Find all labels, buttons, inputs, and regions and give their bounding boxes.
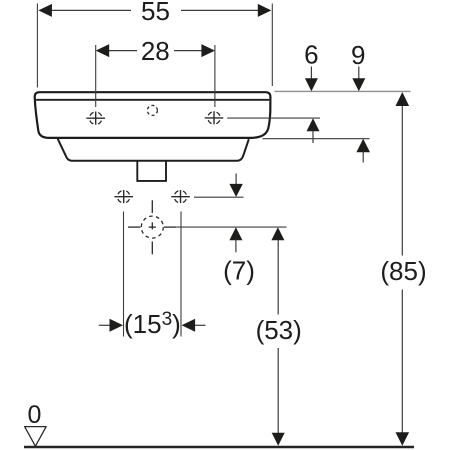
right fixing hole crosshair	[171, 190, 190, 203]
dim 6: upper arrow (down)	[310, 67, 312, 81]
svg-text:6: 6	[304, 39, 318, 69]
basin outer rim outline	[35, 92, 271, 138]
drain pipe centerline vertical	[151, 200, 153, 213]
left tap hole crosshair	[86, 112, 105, 125]
drain pipe dashed circle	[141, 216, 163, 238]
svg-text:(85): (85)	[380, 256, 426, 286]
dim (7): lower arrow (up)	[229, 227, 242, 240]
dim 55: left arrowhead	[38, 4, 52, 17]
dim (53): top arrow (up)	[271, 227, 284, 240]
svg-text:0: 0	[27, 401, 41, 429]
svg-text:(153): (153)	[124, 309, 181, 339]
dim 55: right arrowhead	[258, 4, 272, 17]
dim 9: upper arrow (down)	[358, 67, 360, 81]
dim (85): bottom arrow (down)	[396, 432, 410, 446]
dim (85): top arrow (up)	[396, 92, 410, 106]
drain outlet rectangle	[137, 161, 166, 181]
dim 28: right arrowhead	[201, 44, 215, 57]
dim 55: dimension line	[52, 9, 132, 11]
dim 28: dimension line	[109, 50, 137, 52]
floor line	[24, 446, 414, 448]
dim 28: left extension line	[95, 45, 97, 107]
basin lower body (trapezoid)	[58, 139, 249, 161]
dim 6: lower arrow (up)	[307, 118, 320, 131]
dim (53): bottom arrow (down)	[272, 433, 285, 446]
drain level line	[177, 226, 287, 228]
dim (15^3): right extension line	[180, 212, 182, 337]
fixing hole level line	[194, 196, 244, 198]
basin inner rim line	[36, 99, 269, 101]
dim (15^3): left extension line	[123, 212, 125, 337]
svg-text:28: 28	[141, 36, 170, 66]
left fixing hole crosshair	[114, 190, 133, 203]
dim (15^3): left arrow	[99, 324, 110, 326]
dim 28: left arrowhead	[96, 44, 110, 57]
dim 55: right extension line	[271, 4, 273, 87]
right tap hole crosshair	[205, 111, 224, 124]
svg-text:(53): (53)	[256, 315, 302, 345]
dim 55: left extension line	[36, 4, 38, 88]
datum 0: hollow triangle	[25, 427, 47, 447]
tap hole level reference line	[227, 117, 320, 119]
dim 9: lower arrow (up)	[356, 139, 370, 153]
overflow dashed circle	[147, 105, 157, 115]
drain pipe centerline horizontal	[128, 226, 141, 228]
dim 28: right extension line	[214, 45, 216, 107]
svg-text:9: 9	[351, 40, 365, 70]
dim (53): vertical dimension line	[277, 240, 279, 315]
rim bottom level reference line	[263, 138, 370, 140]
svg-text:(7): (7)	[223, 255, 255, 285]
dim (85): vertical dimension line	[401, 106, 403, 256]
svg-text:55: 55	[141, 0, 170, 26]
rim top reference dotted line	[275, 90, 411, 92]
dim (15^3): right arrow	[182, 319, 196, 332]
dim (7): upper arrow (down)	[235, 174, 237, 186]
